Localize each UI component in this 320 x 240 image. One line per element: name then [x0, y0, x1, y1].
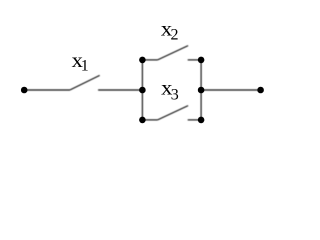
svg-text:3: 3 [171, 86, 179, 103]
svg-text:2: 2 [171, 26, 179, 43]
svg-text:1: 1 [81, 58, 89, 75]
